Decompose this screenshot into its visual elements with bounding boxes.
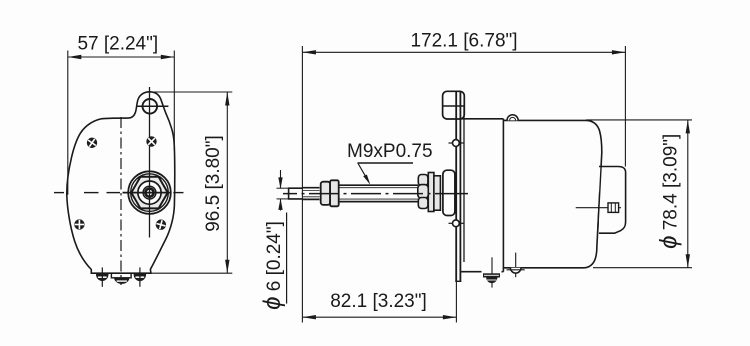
svg-text:ϕ 6 [0.24"]: ϕ 6 [0.24"] [259, 221, 286, 310]
svg-text:57 [2.24"]: 57 [2.24"] [77, 34, 158, 55]
svg-text:82.1 [3.23"]: 82.1 [3.23"] [330, 291, 427, 312]
svg-text:96.5 [3.80"]: 96.5 [3.80"] [203, 135, 224, 232]
svg-text:M9xP0.75: M9xP0.75 [347, 141, 433, 162]
svg-text:ϕ 78.4 [3.09"]: ϕ 78.4 [3.09"] [656, 134, 683, 249]
svg-text:172.1 [6.78"]: 172.1 [6.78"] [410, 30, 517, 51]
